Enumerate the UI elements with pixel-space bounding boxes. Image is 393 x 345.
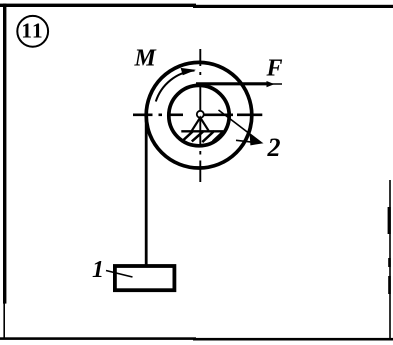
- leader line B to label 2: [236, 140, 258, 143]
- pulley inner circle: [169, 85, 229, 145]
- leader line A to label 2: [219, 110, 262, 143]
- vertical center line: [199, 49, 201, 182]
- svg-text:M: M: [134, 45, 158, 71]
- svg-text:1: 1: [21, 18, 32, 42]
- leader arrowhead near 2: [250, 135, 264, 146]
- moment M arrowhead: [181, 68, 196, 75]
- svg-text:1: 1: [92, 257, 104, 283]
- support triangle: [192, 118, 209, 131]
- support ground line: [181, 130, 223, 132]
- moment M arc: [156, 71, 195, 102]
- frame bottom border: [0, 337, 196, 340]
- force F tip line: [272, 83, 282, 85]
- svg-text:2: 2: [267, 133, 281, 162]
- pin circle at pulley center: [197, 111, 204, 118]
- leader line to label 1: [106, 271, 133, 278]
- block 1 (load): [115, 266, 174, 290]
- frame left border: [3, 4, 6, 304]
- pulley outer circle: [146, 62, 252, 168]
- svg-text:1: 1: [32, 18, 43, 42]
- support hatching: [183, 131, 224, 142]
- svg-text:F: F: [266, 55, 283, 81]
- badge circle 11: [17, 16, 48, 47]
- force F arrowhead: [267, 81, 275, 87]
- horizontal center line: [133, 114, 262, 117]
- frame right border: [389, 180, 391, 340]
- rope: [145, 115, 148, 266]
- force F shaft: [196, 82, 268, 85]
- frame top border: [0, 4, 196, 7]
